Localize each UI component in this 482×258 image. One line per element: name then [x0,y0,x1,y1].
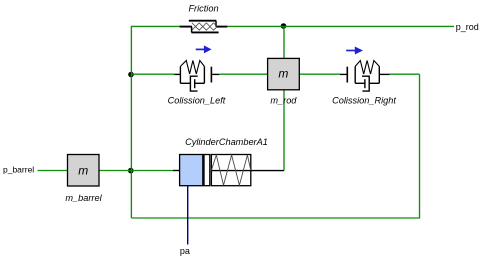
svg-text:m_barrel: m_barrel [65,193,102,203]
svg-text:Friction: Friction [188,4,218,14]
svg-text:p_barrel: p_barrel [3,165,34,175]
svg-text:pa: pa [180,246,190,256]
svg-text:Colission_Left: Colission_Left [168,96,226,106]
svg-text:m: m [78,164,88,178]
svg-text:CylinderChamberA1: CylinderChamberA1 [185,137,268,147]
svg-text:m: m [278,67,288,81]
svg-text:Colission_Right: Colission_Right [332,96,396,106]
svg-text:m_rod: m_rod [270,96,297,106]
svg-text:p_rod: p_rod [456,22,479,32]
